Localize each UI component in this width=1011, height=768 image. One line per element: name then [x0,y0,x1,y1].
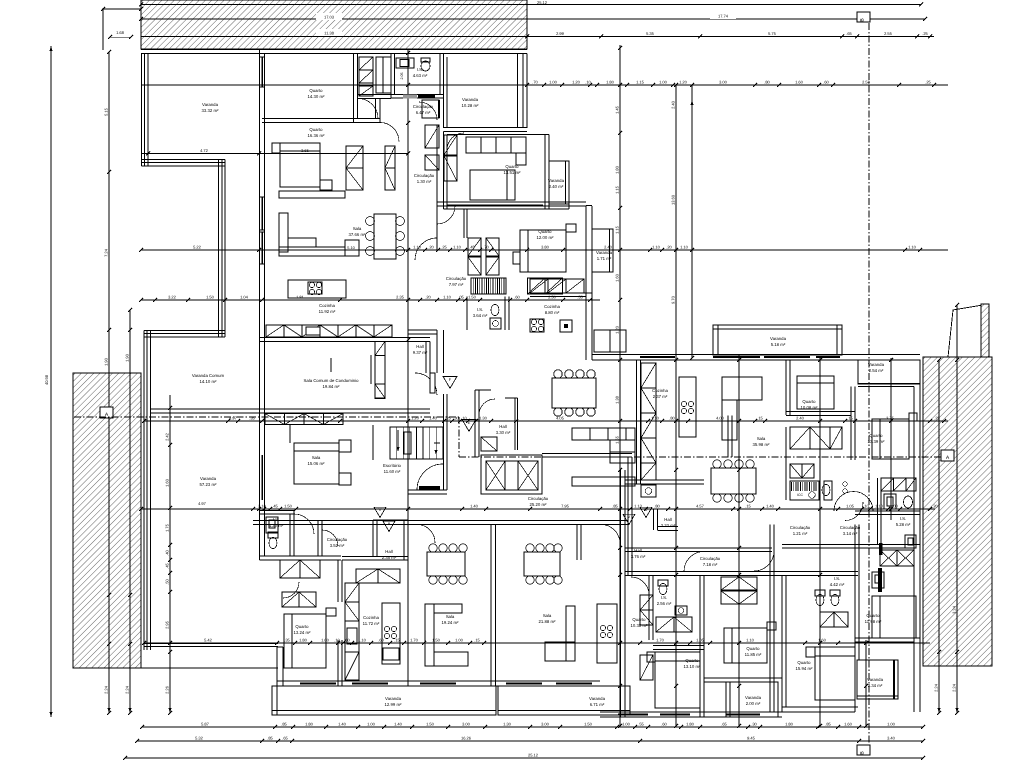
IS 5.28 walls [877,478,879,545]
svg-text:3.40: 3.40 [887,735,896,740]
svg-text:1.40: 1.40 [394,721,403,726]
boundary wedge top right [948,304,989,357]
svg-text:5.35: 5.35 [646,31,655,36]
svg-text:3.00: 3.00 [719,79,728,84]
divider wall extension to x380 [357,118,380,120]
svg-text:3.22: 3.22 [168,294,177,299]
svg-text:.80: .80 [764,79,770,84]
IS 5.28 bidet [884,494,896,509]
small closet boxes x830 [824,481,832,500]
balcony rail vertical x144 lower [143,331,145,651]
left dim line x109 [108,52,110,713]
quarto 13.51 walls [447,134,549,136]
wall x630 corridor left [627,457,629,575]
kitchen bottom wall right bldg [625,479,704,481]
svg-text:Varanda: Varanda [548,178,565,183]
triangle markers core [443,376,457,388]
svg-text:Circulação: Circulação [413,104,434,109]
varanda 2.54 box [858,360,920,384]
svg-text:1.40: 1.40 [338,721,347,726]
balcony rail step2 horizontal y334 [144,330,225,332]
quarto 16.36 closet hatch [346,146,363,168]
svg-text:1.21 m²: 1.21 m² [793,531,808,536]
wall y411 under varanda comum [150,408,430,410]
circulacao vertical wall x465 [463,209,465,238]
stairs [390,427,443,459]
svg-text:.10: .10 [334,637,340,642]
svg-text:13.10 m²: 13.10 m² [684,664,702,669]
left dim line x170 [169,592,171,713]
svg-text:1.50: 1.50 [432,637,441,642]
left balcony rail top-left [141,54,143,167]
sala 19.24 table [427,552,465,576]
IS 4.63 shower [396,58,414,68]
svg-text:1.15: 1.15 [615,225,620,234]
cozinha 8.80 bottom wall [530,292,592,294]
IS right wall x440 [439,54,441,95]
svg-text:1.90: 1.90 [125,353,130,362]
svg-text:1.15: 1.15 [636,79,645,84]
svg-text:.40: .40 [165,549,170,555]
sala sofa L [279,213,288,252]
elevator lobby walls [474,390,476,457]
top dimension chains [141,4,921,6]
cozinha island [382,603,400,664]
wall x702 [699,576,701,718]
svg-text:2.95: 2.95 [165,620,170,629]
svg-text:4.57: 4.57 [696,503,705,508]
svg-text:2.35: 2.35 [396,294,405,299]
svg-text:Quarto: Quarto [802,399,816,404]
varanda 10.28 left wall [443,54,445,129]
right site hatch strip [923,357,992,666]
door quarto 13.51 [447,133,464,150]
svg-text:2.37 m²: 2.37 m² [653,394,668,399]
svg-text:.85: .85 [267,735,273,740]
svg-text:9.70: 9.70 [671,295,676,304]
svg-text:.60: .60 [378,637,384,642]
svg-text:.15: .15 [757,415,763,420]
svg-text:12.99 m²: 12.99 m² [385,702,403,707]
door arc into quarto 16.36 [380,123,399,142]
sala shelf top [279,191,345,198]
svg-text:2.40: 2.40 [671,100,676,109]
svg-text:2.05: 2.05 [400,73,404,80]
svg-text:Escritório: Escritório [383,463,402,468]
svg-text:Cozinha: Cozinha [544,304,560,309]
right building right wall [913,387,915,713]
divider wall x623 [620,470,622,717]
IS 4.63 toilet [421,61,430,71]
door arc quarto 14.30 [358,99,378,119]
kitchen island right bldg [679,377,696,437]
IS 4.42 fixtures [816,595,824,606]
svg-text:Circulação: Circulação [414,173,435,178]
svg-text:.45: .45 [165,562,170,568]
svg-text:Circulação: Circulação [446,276,467,281]
chain y509 [141,508,935,510]
right rail of varanda 10.28 [526,54,528,129]
svg-text:35.98 m²: 35.98 m² [753,442,771,447]
svg-text:8.80 m²: 8.80 m² [545,310,560,315]
grid line x891 [890,358,892,520]
hall right wall x428 [425,342,427,374]
svg-text:.25: .25 [934,415,940,420]
section marker A left [100,407,113,418]
cozinha 8.80 stove [530,319,544,332]
wall x638 right bldg left wall [636,360,638,484]
cozinha 8.80 counter [530,279,548,293]
svg-text:Quarto: Quarto [505,164,519,169]
varanda 6.71 balcony [498,686,630,715]
chain y250 [141,249,948,251]
wall right of core y524 [253,520,628,522]
wall under quarto 10.08 [786,411,855,413]
svg-text:1.80: 1.80 [615,165,620,174]
svg-text:.20: .20 [666,244,672,249]
grid line x739 [738,355,740,726]
corridor shaft box [422,100,439,118]
svg-text:1.20: 1.20 [572,79,581,84]
grid line x676 [675,85,677,726]
kitchen column right bldg [641,363,656,388]
svg-text:.25: .25 [922,31,928,36]
svg-text:4.97: 4.97 [229,415,238,420]
svg-text:.65: .65 [721,721,727,726]
svg-text:Circulação: Circulação [790,525,811,530]
door arc quarto 13.24 [283,582,299,598]
wall under quarto 11.98 [855,637,920,639]
bottom dimension chain row1 [142,726,923,728]
svg-text:14.30 m²: 14.30 m² [308,94,326,99]
circulacao 3.52 door arcs [294,514,314,534]
svg-text:Varanda Comum: Varanda Comum [192,373,225,378]
svg-text:4.42 m²: 4.42 m² [830,582,845,587]
balcony rail vertical x222 [224,160,226,338]
svg-text:1.10: 1.10 [746,637,755,642]
svg-text:F: F [449,377,452,382]
svg-text:ICC: ICC [797,493,803,497]
svg-text:2.40: 2.40 [604,244,613,249]
svg-text:Sala: Sala [353,226,362,231]
svg-text:2.58: 2.58 [862,79,871,84]
svg-text:Cozinha: Cozinha [319,303,335,308]
svg-text:7.24: 7.24 [104,248,109,257]
svg-text:5.42: 5.42 [204,637,213,642]
svg-text:33.32 m²: 33.32 m² [202,108,220,113]
sala 21.88 sofa [545,642,575,661]
svg-text:19.84 m²: 19.84 m² [323,384,341,389]
wall above varanda 2.00 [704,677,782,679]
IS 4.42 X boxes [880,550,897,566]
wall above quarto 13.10 [653,645,704,647]
svg-text:Circulação: Circulação [528,496,549,501]
elevator shafts [481,455,542,494]
svg-text:5.75: 5.75 [768,31,777,36]
svg-text:1.20: 1.20 [411,415,420,420]
svg-text:.85: .85 [281,721,287,726]
sala comum right closet [375,342,385,399]
svg-text:Cozinha: Cozinha [652,388,668,393]
svg-text:1.50: 1.50 [206,294,215,299]
chain y153 [141,153,408,155]
svg-text:Quarto: Quarto [797,660,811,665]
svg-text:Sala: Sala [543,613,552,618]
quarto 13.24 wardrobe hatch [280,560,300,578]
chain y643 extension left [144,642,277,644]
svg-text:Quarto: Quarto [869,433,883,438]
svg-text:Quarto: Quarto [309,127,323,132]
right dim line x957 [956,305,958,713]
x170 dim line inside balcony [169,395,171,592]
svg-text:Varanda: Varanda [202,102,219,107]
dark sink counter [790,481,819,500]
svg-text:.10: .10 [863,503,869,508]
cozinha 11.72 counter top [356,569,378,583]
svg-text:1.60: 1.60 [818,637,827,642]
door sala to circulacao [415,238,437,260]
IS 5.28 wardrobe hatch row [881,478,894,491]
top neighbour wall hatch band [141,0,527,49]
svg-text:D: D [645,507,648,512]
kitchen counter right hatched [528,278,546,294]
walls around hall x437-443 [443,330,445,373]
svg-text:14.10 m²: 14.10 m² [200,379,218,384]
svg-text:1.80: 1.80 [785,721,794,726]
svg-text:.25: .25 [925,79,931,84]
svg-text:1.40: 1.40 [766,503,775,508]
svg-text:Varanda: Varanda [596,250,613,255]
svg-text:2.35 m²: 2.35 m² [382,555,397,560]
svg-text:1.00: 1.00 [549,79,558,84]
svg-text:25.20 m²: 25.20 m² [530,502,548,507]
svg-text:2.26: 2.26 [165,685,170,694]
svg-text:1.70: 1.70 [656,637,665,642]
sala dining table [374,214,396,259]
svg-text:13.60: 13.60 [671,194,676,205]
left overall dimension line [50,46,52,717]
stair down arrow [434,442,440,444]
left site hatch strip [73,373,141,668]
svg-text:3.00: 3.00 [541,721,550,726]
hatch row mid right [790,427,810,449]
svg-text:5.10: 5.10 [347,246,354,250]
svg-text:Sala: Sala [446,614,455,619]
svg-text:I.S.: I.S. [477,307,483,312]
striped floor strip [470,278,472,294]
sala 19.24 sofa [425,604,434,666]
svg-text:.35: .35 [249,415,255,420]
svg-text:3.76 m²: 3.76 m² [631,554,646,559]
double door arc corridor [834,492,873,512]
svg-text:57.23 m²: 57.23 m² [200,482,218,487]
svg-text:15.94 m²: 15.94 m² [796,666,814,671]
left dim line x130 [129,310,131,713]
left building right wall lower x589 [585,293,587,360]
varanda 10.28 bottom wall [444,127,528,129]
svg-text:3.33 m²: 3.33 m² [661,523,676,528]
IS 2.56 toilet [659,584,667,595]
chain y643 [277,642,930,644]
quarto 11.98 bed [872,596,916,638]
svg-text:5.87: 5.87 [201,721,210,726]
svg-text:Varanda: Varanda [770,336,787,341]
svg-text:1.80: 1.80 [606,79,615,84]
svg-text:1.30: 1.30 [503,721,512,726]
svg-text:Quarto: Quarto [632,617,646,622]
svg-text:.20: .20 [425,294,431,299]
svg-text:1.10: 1.10 [908,244,917,249]
chain y421 [144,420,948,422]
svg-text:17.74: 17.74 [718,14,729,19]
svg-text:3.64 m²: 3.64 m² [473,313,488,318]
svg-text:2.40: 2.40 [796,415,805,420]
svg-text:1.04: 1.04 [240,294,249,299]
svg-text:1.80: 1.80 [305,721,314,726]
corridor walls right y573 [625,571,858,573]
svg-text:5.18 m²: 5.18 m² [771,342,786,347]
counter sala 36.98 [572,477,635,486]
quarto 11.98 hatch boxes [820,612,834,627]
wall x320 and arcs [317,520,319,556]
svg-text:1.40: 1.40 [429,415,438,420]
wall x784 lower [781,576,783,713]
svg-text:.10: .10 [585,79,591,84]
quarto 11.85 hatch wardrobe [721,577,739,590]
svg-text:1.81: 1.81 [296,294,305,299]
corridor walls right y550 [625,547,772,549]
closet row sala 36.98 top [572,428,635,440]
svg-text:Hall: Hall [664,517,671,522]
svg-text:2.99: 2.99 [556,31,565,36]
varanda 2.00 balcony [726,682,778,717]
svg-text:10.28 m²: 10.28 m² [462,103,480,108]
hatch col corridor kitchens x641 low [640,595,653,610]
svg-text:1.70: 1.70 [410,637,419,642]
svg-text:Varanda: Varanda [867,677,884,682]
svg-text:.60: .60 [514,294,520,299]
svg-text:Quarto: Quarto [746,646,760,651]
divider wall bottom apartments x493 [490,525,492,687]
svg-text:11.98 m²: 11.98 m² [865,619,882,624]
varanda 5.18 box [713,325,842,355]
svg-text:11.85 m²: 11.85 m² [745,652,762,657]
svg-text:.65: .65 [282,735,288,740]
hall 3.33 walls [653,509,655,530]
svg-text:I.S.: I.S. [834,576,840,581]
svg-text:.15: .15 [745,503,751,508]
quarto 13.24 bed [284,614,326,668]
svg-text:1.40: 1.40 [470,503,479,508]
svg-text:.50: .50 [165,578,170,584]
quarto 16.36 bed [280,143,320,187]
hall 2.35 walls [372,520,374,556]
sala 15.06 bed [294,443,339,484]
svg-text:11.72 m²: 11.72 m² [363,621,380,626]
svg-text:21.88 m²: 21.88 m² [539,619,557,624]
svg-text:.20: .20 [428,244,434,249]
svg-text:Quarto: Quarto [866,613,880,618]
svg-text:Varanda: Varanda [589,696,606,701]
wall y96 with black lintel [391,94,444,96]
svg-text:7.97 m²: 7.97 m² [449,282,464,287]
svg-text:19.24 m²: 19.24 m² [442,620,460,625]
svg-text:.15: .15 [474,637,480,642]
svg-text:I.S.: I.S. [417,67,423,72]
svg-text:3.80: 3.80 [541,244,550,249]
svg-text:4.72: 4.72 [200,148,209,153]
entry door black bar sala comum [430,373,435,393]
svg-text:12.00 m²: 12.00 m² [537,235,555,240]
svg-text:.80: .80 [669,415,675,420]
svg-text:2.34 m²: 2.34 m² [868,683,883,688]
svg-text:1.80: 1.80 [299,637,308,642]
wall x788 y427-500 [785,427,787,500]
svg-text:A: A [388,521,391,526]
top left small dim 1.68 [102,8,104,50]
svg-text:3.24: 3.24 [952,605,957,614]
svg-text:Hall: Hall [416,344,423,349]
svg-text:2.24: 2.24 [125,685,130,694]
svg-text:Hall: Hall [499,424,506,429]
kitchen island 11.92 [288,280,346,298]
svg-text:1.60: 1.60 [615,273,620,282]
svg-text:1.71 m²: 1.71 m² [597,256,612,261]
plain closet x376 [376,57,391,93]
svg-text:.45: .45 [272,503,278,508]
svg-text:Varanda: Varanda [868,362,885,367]
svg-text:1.90: 1.90 [104,357,109,366]
hall 2.35 right wall [403,520,405,560]
svg-text:2.24: 2.24 [952,683,957,692]
sala comum marker line [330,358,332,372]
IS 5.28 shower [905,535,916,548]
wardrobe column quarto 14.30 detail [359,57,373,70]
wall y512 right [855,510,920,512]
bottom wall left apartments y683 [277,680,600,682]
corridor wall x440 [436,125,438,209]
bottom wall right apartments y714 [600,711,782,713]
svg-text:2.40 m²: 2.40 m² [549,184,564,189]
svg-text:5.32: 5.32 [195,735,204,740]
svg-text:7.95: 7.95 [561,503,570,508]
wall between quarto 14.30 and 16.36 [262,118,357,120]
svg-text:4.97: 4.97 [198,501,207,506]
arcs bottom apartments [417,525,435,544]
quarto 10.08 bed [797,376,834,409]
windows bottom wall [300,683,336,685]
svg-text:Sala: Sala [312,455,321,460]
svg-text:1.00: 1.00 [321,637,330,642]
svg-text:11.38: 11.38 [324,31,334,36]
window bars on left wall [261,197,263,230]
svg-text:40.98: 40.98 [44,374,49,385]
svg-text:Quarto: Quarto [685,658,699,663]
right dim line x939 [938,360,940,713]
grid line x620 [619,45,621,726]
svg-text:1.45: 1.45 [615,105,620,114]
svg-text:5.22: 5.22 [193,244,202,249]
closet row quarto 13.51 [466,137,526,153]
svg-text:1.15: 1.15 [615,185,620,194]
sala 21.88 table [524,552,560,576]
svg-text:2.42: 2.42 [165,432,170,441]
wall below stairs y492 [408,489,447,491]
svg-text:Quarto: Quarto [295,624,309,629]
sala comum top wall y339 [260,337,431,339]
quarto 10.08 walls [785,360,787,415]
svg-text:.65: .65 [846,31,852,36]
